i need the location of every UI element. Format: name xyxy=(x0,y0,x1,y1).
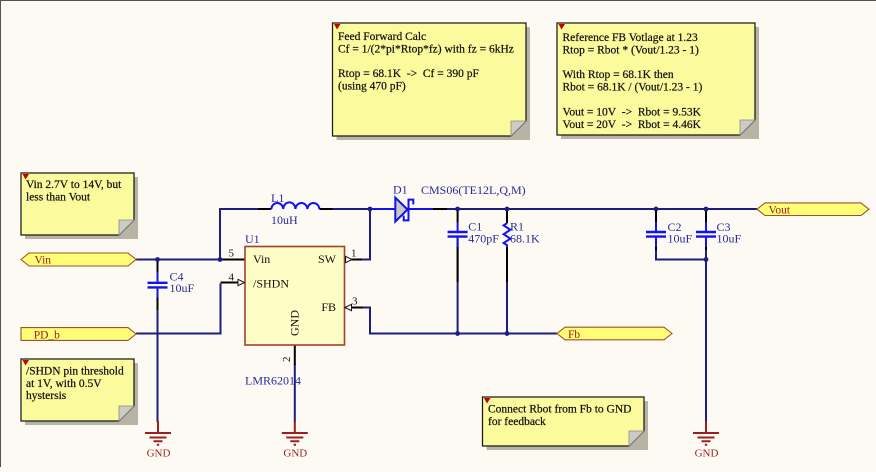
svg-text:Connect Rbot from Fb to GND: Connect Rbot from Fb to GND xyxy=(488,404,631,416)
svg-text:Rtop = Rbot * (Vout/1.23 - 1): Rtop = Rbot * (Vout/1.23 - 1) xyxy=(563,44,699,56)
svg-text:Vin: Vin xyxy=(35,255,52,267)
svg-text:10uF: 10uF xyxy=(717,232,742,246)
svg-text:/SHDN pin threshold: /SHDN pin threshold xyxy=(26,365,124,377)
svg-text:68.1K: 68.1K xyxy=(510,231,540,245)
svg-text:SW: SW xyxy=(318,252,337,266)
svg-text:5: 5 xyxy=(229,248,235,260)
svg-text:D1: D1 xyxy=(393,183,408,197)
svg-text:CMS06(TE12L,Q,M): CMS06(TE12L,Q,M) xyxy=(421,183,526,197)
svg-text:Rtop = 68.1K -> Cf = 390 pF: Rtop = 68.1K -> Cf = 390 pF xyxy=(338,68,479,80)
svg-text:GND: GND xyxy=(283,448,307,460)
svg-text:GND: GND xyxy=(695,448,719,460)
svg-text:Vin: Vin xyxy=(253,252,270,266)
svg-text:Cf = 1/(2*pi*Rtop*fz) with fz: Cf = 1/(2*pi*Rtop*fz) with fz = 6kHz xyxy=(338,43,514,55)
svg-text:GND: GND xyxy=(147,448,171,460)
svg-text:U1: U1 xyxy=(245,232,260,246)
svg-text:Rbot = 68.1K / (Vout/1.23 - 1): Rbot = 68.1K / (Vout/1.23 - 1) xyxy=(563,82,703,94)
svg-text:FB: FB xyxy=(321,300,336,314)
svg-text:Vin 2.7V to 14V, but: Vin 2.7V to 14V, but xyxy=(26,179,122,191)
svg-text:Vout: Vout xyxy=(769,204,791,216)
svg-text:LMR62014: LMR62014 xyxy=(245,374,301,388)
svg-text:for feedback: for feedback xyxy=(488,416,546,428)
svg-text:With Rtop = 68.1K then: With Rtop = 68.1K then xyxy=(563,69,674,81)
svg-text:Fb: Fb xyxy=(568,329,580,341)
svg-text:10uF: 10uF xyxy=(170,281,195,295)
svg-text:Vout = 20V -> Rbot = 4.46K: Vout = 20V -> Rbot = 4.46K xyxy=(563,119,702,131)
svg-text:Feed Forward Calc: Feed Forward Calc xyxy=(338,31,426,43)
svg-text:1: 1 xyxy=(351,248,357,260)
svg-text:/SHDN: /SHDN xyxy=(253,277,289,291)
svg-text:PD_b: PD_b xyxy=(34,329,60,341)
svg-text:10uF: 10uF xyxy=(668,232,693,246)
svg-text:470pF: 470pF xyxy=(468,231,499,245)
svg-text:3: 3 xyxy=(352,296,358,308)
svg-text:at 1V, with 0.5V: at 1V, with 0.5V xyxy=(26,378,102,390)
svg-text:GND: GND xyxy=(288,310,302,336)
svg-text:less than Vout: less than Vout xyxy=(26,191,91,203)
svg-text:L1: L1 xyxy=(271,191,284,205)
svg-text:Reference FB Votlage at 1.23: Reference FB Votlage at 1.23 xyxy=(563,32,699,44)
svg-text:2: 2 xyxy=(281,357,293,363)
svg-text:(using 470 pF): (using 470 pF) xyxy=(338,81,406,93)
svg-text:Vout = 10V -> Rbot = 9.53K: Vout = 10V -> Rbot = 9.53K xyxy=(563,106,702,118)
svg-text:10uH: 10uH xyxy=(271,213,298,227)
svg-text:4: 4 xyxy=(229,272,235,284)
svg-text:hystersis: hystersis xyxy=(26,390,67,402)
